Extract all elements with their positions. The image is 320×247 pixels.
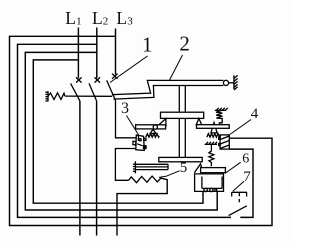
wire phase 3 from coil 3 to heater 5 xyxy=(115,149,136,181)
wire phase 1 down to load xyxy=(79,101,81,236)
overcurrent release coil 3 (tilted box) xyxy=(136,135,145,150)
coil 6 turns (bumps) xyxy=(204,188,207,191)
hatching under fulcrum 4 xyxy=(207,134,221,138)
hatched ceiling above spring 6 xyxy=(205,142,218,145)
wire W2b: button 7 to coil 4 bottom xyxy=(229,149,253,217)
svg-text:6: 6 xyxy=(242,152,249,167)
label 7 xyxy=(243,169,251,185)
lever pivot link xyxy=(229,82,234,84)
label 1 xyxy=(142,33,153,57)
spring wall (left anchor) xyxy=(45,91,48,101)
label 6 xyxy=(242,152,249,167)
button 7 stem (dashed) xyxy=(238,193,240,205)
wire W3: L2 tap around to coil 6 right lead xyxy=(25,52,217,210)
hatched ceiling above spring 4 xyxy=(215,108,228,111)
coil 3 right tab lower xyxy=(144,146,147,149)
hatching under fulcrum 3 xyxy=(146,134,159,138)
wire phase 3 into overcurrent coil 3 xyxy=(116,100,137,137)
latch hook under crossbar left end xyxy=(157,119,166,127)
lever pivot wall with hatching xyxy=(234,75,238,90)
leader 3 xyxy=(127,116,140,136)
svg-text:1: 1 xyxy=(76,16,82,28)
stop button 7 bridge xyxy=(232,192,247,196)
svg-text:L: L xyxy=(116,8,127,28)
lever pivot pin xyxy=(223,80,228,85)
contact crossbar link xyxy=(65,95,112,97)
leader 7 xyxy=(233,181,244,191)
wire W4: L1 tap around to coil 6 left lead xyxy=(33,60,203,203)
contact fixed point X pole 2 xyxy=(95,77,101,82)
bimetal strip 5 xyxy=(135,164,168,169)
latch knob on armature 4 xyxy=(196,119,202,125)
shunt release coil 4 xyxy=(220,135,229,149)
armature of shunt release 4 xyxy=(197,125,230,129)
armature of overcurrent release 3 xyxy=(136,125,166,129)
svg-text:L: L xyxy=(92,8,103,28)
free release lever 2 (trip strip and bar outline) xyxy=(112,80,223,99)
label 5 xyxy=(180,160,188,176)
armature plate of release 6 xyxy=(201,168,226,173)
node L2 label xyxy=(92,8,108,28)
wire L2 supply vertical xyxy=(96,28,98,79)
leader 4 xyxy=(230,120,251,135)
trip crossbar upper xyxy=(161,112,204,118)
wire W2: L2 tap around left+bottom to button 7 xyxy=(18,44,232,217)
coil 4 left nubs xyxy=(219,137,220,145)
hinge triangle of plate 6 xyxy=(194,164,201,173)
undervoltage release 6 outer core xyxy=(195,174,224,192)
svg-text:2: 2 xyxy=(103,16,109,28)
bimetal clamp wall xyxy=(133,161,136,173)
svg-text:L: L xyxy=(65,8,76,28)
node L3 label xyxy=(116,8,133,28)
coil 3 internal line xyxy=(137,136,143,146)
svg-text:1: 1 xyxy=(142,33,153,57)
contact fixed point X pole 3 xyxy=(112,74,118,79)
svg-text:7: 7 xyxy=(243,169,251,185)
leader 5 xyxy=(159,171,180,178)
svg-text:4: 4 xyxy=(251,106,259,122)
trip crossbar lower xyxy=(159,157,202,161)
svg-text:5: 5 xyxy=(180,160,188,176)
wire phase 2 down to load xyxy=(96,101,98,236)
heater resistor of thermal release 5 xyxy=(129,176,163,183)
contact fixed point X pole 1 xyxy=(76,77,82,82)
button 7 moving blade xyxy=(229,206,247,216)
coil 3 right tab upper xyxy=(144,138,146,140)
node L1 label xyxy=(65,8,81,28)
trip rod lower segment (double line) xyxy=(179,118,185,157)
spring of armature 4 xyxy=(216,110,222,124)
opening spring xyxy=(48,93,65,100)
main contact blade pole 2 xyxy=(89,83,97,101)
leader 1 xyxy=(110,56,148,83)
coil 3 left tab xyxy=(133,141,136,145)
coil 6 inner xyxy=(202,177,222,189)
leader 6 xyxy=(225,162,241,173)
fulcrum triangle of armature 3 xyxy=(150,129,156,133)
label 2 xyxy=(179,32,190,56)
svg-text:3: 3 xyxy=(127,16,133,28)
pivot circle on armature 3 xyxy=(153,125,157,129)
coil 3 plunger dot xyxy=(139,139,141,141)
wire W1: L3 tap around left+bottom to coil 4 right side xyxy=(10,36,273,225)
main contact blade pole 1 xyxy=(71,83,80,101)
svg-text:3: 3 xyxy=(121,100,129,117)
fulcrum triangle of armature 4 xyxy=(211,123,217,133)
label 3 xyxy=(121,100,129,117)
leader 2 xyxy=(169,55,182,81)
wire phase 3 from heater down and to load xyxy=(117,179,167,236)
label 4 xyxy=(251,106,259,122)
trip rod upper segment (double line) xyxy=(179,86,185,113)
wire L3 supply vertical xyxy=(115,29,117,75)
wire L1 supply vertical xyxy=(77,28,79,79)
svg-text:2: 2 xyxy=(179,32,190,56)
coil 4 hatching xyxy=(220,136,229,149)
main contact blade pole 3 xyxy=(107,80,116,100)
spring of undervoltage armature 6 xyxy=(209,144,214,166)
